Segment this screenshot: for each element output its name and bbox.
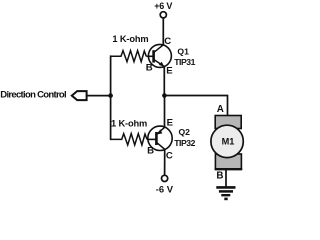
wire +6V to Q1 collector bbox=[162, 18, 164, 45]
svg-text:Direction Control: Direction Control bbox=[0, 90, 66, 101]
svg-text:-6 V: -6 V bbox=[156, 183, 174, 194]
svg-text:M1: M1 bbox=[222, 137, 235, 147]
svg-text:A: A bbox=[217, 104, 224, 115]
wire Q1 emitter to output node bbox=[163, 67, 165, 96]
wire Q2 collector to -6V terminal bbox=[164, 150, 166, 176]
svg-text:C: C bbox=[164, 36, 171, 47]
svg-text:TIP32: TIP32 bbox=[174, 138, 195, 148]
svg-text:B: B bbox=[216, 171, 223, 182]
ground bbox=[216, 187, 235, 199]
svg-text:+6 V: +6 V bbox=[154, 1, 172, 11]
svg-text:E: E bbox=[167, 117, 174, 128]
wire Q2 emitter to output node bbox=[164, 96, 166, 128]
svg-text:Q2: Q2 bbox=[179, 127, 191, 137]
input connector (Direction Control) bbox=[72, 91, 87, 100]
svg-text:B: B bbox=[147, 146, 154, 157]
node: base junction bbox=[108, 93, 113, 98]
svg-text:1 K-ohm: 1 K-ohm bbox=[111, 118, 147, 128]
resistor R1 1 K-ohm bbox=[111, 51, 147, 62]
node: output junction bbox=[162, 93, 167, 98]
svg-text:C: C bbox=[166, 150, 173, 161]
wire output node to motor terminal A bbox=[164, 96, 227, 117]
label Q1 TIP31 bbox=[174, 47, 195, 67]
wire R2 to Q2 base bbox=[147, 138, 156, 140]
svg-text:B: B bbox=[146, 63, 153, 74]
motor M1 bbox=[211, 116, 243, 170]
label Q2 TIP32 bbox=[174, 127, 195, 148]
svg-text:E: E bbox=[166, 66, 173, 77]
transistor Q1 bbox=[148, 44, 171, 67]
wire connector to base junction bbox=[87, 95, 111, 97]
svg-text:Q1: Q1 bbox=[177, 47, 189, 57]
resistor R2 1 K-ohm bbox=[111, 134, 147, 145]
wire R1 to Q1 base bbox=[146, 55, 153, 57]
wire motor B to ground bbox=[225, 169, 227, 187]
svg-text:TIP31: TIP31 bbox=[174, 57, 195, 67]
transistor Q2 bbox=[148, 126, 172, 150]
power terminal -6 V bbox=[156, 175, 174, 194]
wire base junction vertical bbox=[110, 55, 112, 140]
svg-text:1 K-ohm: 1 K-ohm bbox=[112, 34, 148, 44]
power terminal +6 V bbox=[154, 1, 172, 18]
